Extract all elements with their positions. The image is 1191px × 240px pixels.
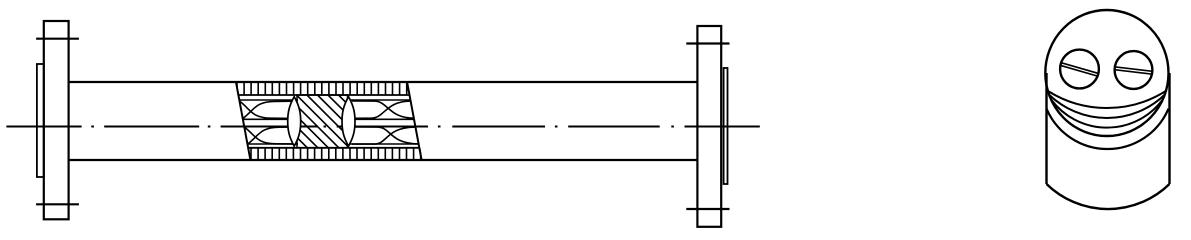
sensor body right side bbox=[1168, 73, 1170, 184]
sensor body left side bbox=[1045, 73, 1047, 184]
right screw slot bbox=[1113, 67, 1155, 75]
left flange top bolt line bbox=[36, 38, 79, 40]
shaft line y=126.6 bbox=[244, 126, 415, 128]
sensor body bottom arc bbox=[1047, 184, 1170, 209]
sensor ring arc 3 bbox=[1052, 100, 1163, 128]
left flange plate bbox=[44, 21, 69, 219]
straightener inner line y=95 (top band bottom) bbox=[238, 94, 409, 96]
left screw slot bbox=[1058, 62, 1101, 77]
straightener inner line y=147.8 (bottom band top) bbox=[248, 147, 419, 149]
shaft line y=144 bbox=[247, 143, 418, 145]
X brace upper-left bbox=[240, 101, 293, 118]
sensor ring arc 1 bbox=[1048, 91, 1166, 108]
blade lens left bbox=[288, 97, 301, 146]
flow straightener teeth (bottom band) bbox=[251, 148, 421, 160]
left flange bottom bolt line bbox=[36, 203, 79, 205]
right screw head bbox=[1115, 51, 1153, 89]
X brace lower-left bbox=[245, 127, 294, 144]
right gasket/raised-face ring bbox=[724, 68, 728, 184]
centerline (dash-dot axis) bbox=[6, 126, 759, 128]
sensor ring arc 2 bbox=[1049, 95, 1164, 118]
X brace upper-right bbox=[352, 101, 411, 118]
right flange top bolt line bbox=[686, 42, 729, 44]
left screw head bbox=[1060, 50, 1099, 89]
turbine hub (diagonal hatched) bbox=[244, 95, 392, 148]
left gasket/raised-face ring bbox=[37, 64, 44, 177]
shaft line y=119.3 bbox=[243, 118, 414, 120]
pipe bottom wall bbox=[69, 159, 698, 161]
shaft line y=100 bbox=[239, 99, 410, 101]
pipe top wall bbox=[69, 81, 698, 83]
right flange plate bbox=[697, 26, 721, 227]
straightener left slant edge bbox=[236, 82, 251, 161]
right flange bottom bolt line bbox=[686, 208, 729, 210]
straightener right slant edge bbox=[407, 82, 422, 161]
blade lens right bbox=[342, 97, 355, 146]
sensor cap circle bbox=[1045, 10, 1168, 136]
X brace lower-right bbox=[352, 127, 415, 144]
flow straightener teeth (top band) bbox=[237, 82, 407, 95]
sensor shoulder arc bbox=[1047, 109, 1169, 149]
